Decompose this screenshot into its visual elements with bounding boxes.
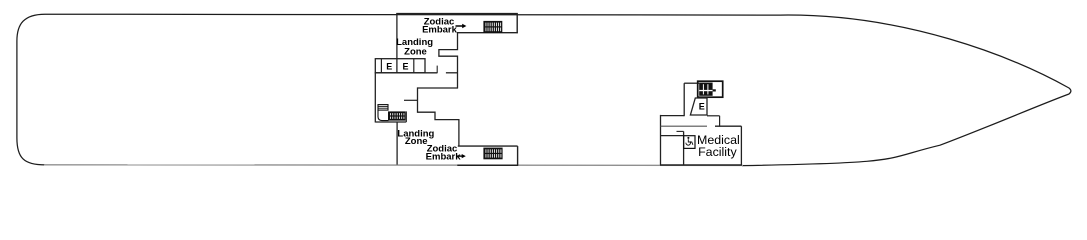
door leaf x=437.2	[436, 66, 438, 74]
top zodiac room floor wall y=32.7	[457, 32, 518, 34]
structure left wall x=375.3 (E row to icon cluster)	[374, 72, 376, 122]
elevator row dividers	[380, 59, 382, 73]
lower-left wall x=397.1	[396, 122, 398, 165]
svg-text:Zone: Zone	[405, 136, 428, 147]
elevator row outer box	[375, 59, 425, 73]
medical platform wall y=115.6	[661, 115, 685, 117]
svg-text:Facility: Facility	[698, 145, 737, 159]
hull outline (ship deck plan)	[17, 14, 1071, 165]
svg-text:Embark: Embark	[422, 25, 458, 36]
wall x=417.5 vertical	[417, 87, 419, 112]
stairs icon C (cluster)	[388, 111, 406, 120]
sub-room wall y=135.6	[661, 135, 684, 137]
wheelchair glyph	[686, 137, 693, 145]
arrow right (top zodiac embark)	[456, 24, 467, 28]
rounded pocket below ladder	[378, 110, 389, 121]
svg-text:Embark: Embark	[426, 152, 462, 163]
icon cluster bottom line y=122	[375, 121, 406, 123]
top zodiac room right wall x=517.2	[516, 14, 518, 34]
wall x=719.6 vertical	[719, 116, 721, 127]
stairs icon A (top room)	[483, 21, 502, 33]
medical bottom wall y=165	[660, 164, 742, 166]
door leaf y=131.4	[677, 130, 684, 132]
svg-text:E: E	[386, 61, 392, 71]
divider x=683.6	[683, 131, 685, 165]
notch wall polyline (alcove left of corridor)	[439, 33, 458, 89]
stub wall y=100.3	[404, 99, 418, 101]
medical top wall y=126.2 (right of door)	[715, 125, 741, 127]
icon cluster right edge	[405, 111, 407, 122]
stairs icon B (bottom room)	[483, 148, 502, 160]
svg-text:Zone: Zone	[404, 47, 427, 58]
medical right wall x=741.4	[740, 126, 742, 165]
wall: upper-structure left vertical at x=397	[396, 13, 398, 73]
wall y=88	[418, 87, 459, 89]
step walls to lower room	[418, 112, 459, 146]
wall y=83.2 to stairs box	[684, 82, 699, 84]
hull bottom deck line (gray)	[44, 164, 743, 167]
corridor wall y=72.8 with door gap	[375, 72, 437, 74]
stairs box D (medical)	[698, 81, 723, 97]
svg-text:E: E	[402, 61, 408, 71]
bottom zodiac room walls	[458, 145, 518, 147]
medical top wall y=126.2 (gray, left of door)	[661, 125, 708, 127]
medical left wall x=660.5	[660, 115, 662, 165]
ladder icon (escalator) rect	[378, 105, 388, 111]
medical platform vertical x=684.2	[683, 83, 685, 116]
wheelchair accessible box	[684, 136, 695, 149]
top room top wall (thick overlay on hull)	[396, 13, 518, 15]
elevator E room (trapezoid)	[690, 98, 707, 115]
svg-text:E: E	[699, 102, 705, 112]
arrow right (bottom zodiac embark)	[457, 154, 466, 158]
wall y=115.8 right of E room	[707, 115, 720, 117]
